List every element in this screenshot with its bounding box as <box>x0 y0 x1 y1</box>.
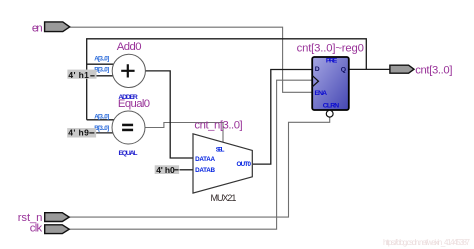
svg-text:MUX21: MUX21 <box>211 193 237 203</box>
wire MUX OUT0 bus to register D input <box>253 70 313 165</box>
svg-text:Q: Q <box>341 66 346 73</box>
wire en net: en pin to ENA of register <box>70 27 313 92</box>
wire Equal0 output to MUX SEL input <box>145 123 223 144</box>
svg-text:EQUAL: EQUAL <box>119 150 138 157</box>
adder Add0 <box>94 41 145 101</box>
wire constant 4'h9 to Equal0 B input <box>96 132 115 134</box>
input pin rst_n <box>18 212 69 224</box>
svg-text:Add0: Add0 <box>117 41 142 53</box>
comparator Equal0 <box>94 98 150 157</box>
svg-text:OUT0: OUT0 <box>237 161 252 168</box>
constant 4'h9 <box>67 127 96 137</box>
wire Q output bus to output pin cnt[3..0] <box>349 68 390 70</box>
svg-text:D: D <box>315 66 320 73</box>
svg-text:Equal0: Equal0 <box>118 98 150 110</box>
constant 4'h1 <box>67 70 96 80</box>
register cnt[3..0]~reg0 <box>297 42 364 117</box>
svg-text:4' h9: 4' h9 <box>68 127 89 137</box>
svg-text:ENA: ENA <box>315 90 328 97</box>
clock triangle <box>312 76 318 87</box>
svg-text:A[3..0]: A[3..0] <box>94 114 109 121</box>
svg-text:DATAA: DATAA <box>195 156 215 163</box>
wire Add0 output bus to MUX DATAA input <box>145 71 193 158</box>
svg-text:SEL: SEL <box>216 147 225 154</box>
wire constant 4'h1 to Add0 B input <box>97 75 116 77</box>
wire rst_n net: rst_n pin to CLRN bubble of register <box>69 117 330 217</box>
svg-text:4' h1: 4' h1 <box>68 70 89 80</box>
svg-text:cnt[3..0]~reg0: cnt[3..0]~reg0 <box>297 42 364 54</box>
svg-text:https://blog.csdn.net/weixin_4: https://blog.csdn.net/weixin_41445387 <box>383 238 471 247</box>
constant 4'h0 <box>155 165 179 175</box>
wire clk net: clk pin to clock input of register <box>69 80 312 229</box>
wire constant 4'h0 to MUX DATAB input <box>180 169 194 171</box>
svg-text:DATAB: DATAB <box>195 167 215 174</box>
svg-text:cnt[3..0]: cnt[3..0] <box>415 64 452 76</box>
mux MUX21 (cnt_n[3..0]) <box>193 120 252 203</box>
svg-text:A[3..0]: A[3..0] <box>94 55 109 62</box>
svg-text:en: en <box>32 23 43 35</box>
svg-text:B[3..0]: B[3..0] <box>94 125 109 132</box>
output pin cnt[3..0] <box>390 64 453 76</box>
svg-text:4' h0: 4' h0 <box>156 165 175 175</box>
input pin en <box>32 22 70 35</box>
svg-text:CLRN: CLRN <box>323 103 339 110</box>
wire feedback bus from Q up over to adder/comparator A inputs <box>87 39 367 120</box>
CLRN inversion bubble <box>326 110 333 117</box>
svg-text:PRE: PRE <box>326 58 338 65</box>
svg-text:cnt_n[3..0]: cnt_n[3..0] <box>194 120 242 132</box>
input pin clk <box>30 222 69 234</box>
svg-text:clk: clk <box>30 222 43 234</box>
